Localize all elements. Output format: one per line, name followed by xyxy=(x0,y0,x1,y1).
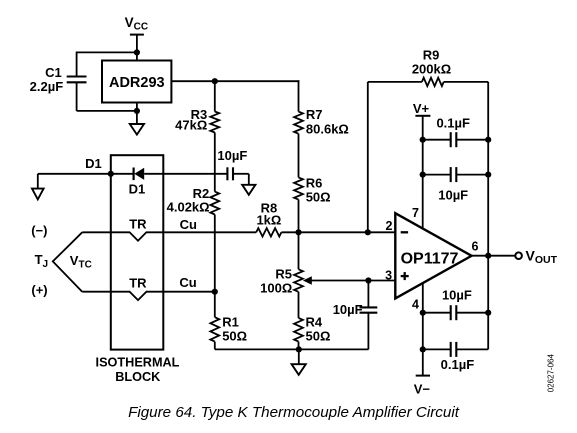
wire cap1 leads xyxy=(423,139,451,141)
resistor R3 xyxy=(210,112,219,133)
svg-text:Figure 64. Type K Thermocouple: Figure 64. Type K Thermocouple Amplifier… xyxy=(128,404,460,421)
svg-text:(+): (+) xyxy=(31,283,47,298)
svg-text:V−: V− xyxy=(414,382,431,397)
node pin4 cap right xyxy=(485,310,491,316)
power rail V- xyxy=(416,375,430,377)
node bottom cap left xyxy=(420,346,426,352)
svg-text:50Ω: 50Ω xyxy=(306,328,331,343)
svg-text:6: 6 xyxy=(472,239,479,253)
wire 10uF cap top lead xyxy=(367,281,369,308)
R5 wiper arrow xyxy=(303,276,312,285)
svg-text:TR: TR xyxy=(129,276,147,291)
wire C1 bottom to ADR ground node xyxy=(76,82,78,111)
node cap1 right xyxy=(485,137,491,143)
wire R9 row left xyxy=(368,81,422,83)
node cap2 right xyxy=(485,172,491,178)
wire ADR293 output row xyxy=(171,80,299,82)
power rail VCC symbol xyxy=(130,34,144,36)
svg-text:Cu: Cu xyxy=(179,275,196,290)
resistor R1 xyxy=(210,317,219,341)
wire 10uF cap bottom lead xyxy=(367,313,369,350)
potentiometer R5 xyxy=(294,269,303,292)
voltage reference ADR293 xyxy=(102,61,171,103)
svg-text:50Ω: 50Ω xyxy=(306,189,331,204)
wire bottom cap leads xyxy=(423,348,451,350)
svg-text:1kΩ: 1kΩ xyxy=(256,213,281,228)
svg-text:3: 3 xyxy=(385,269,392,283)
node TR-plus R1 tap xyxy=(212,289,218,295)
svg-text:200kΩ: 200kΩ xyxy=(412,62,451,77)
node pin4 cap left xyxy=(420,310,426,316)
wire cap to ground stub xyxy=(233,173,249,175)
node cap1 left xyxy=(420,137,426,143)
wire R2 bottom column xyxy=(214,215,216,292)
svg-text:4: 4 xyxy=(412,297,419,311)
wire cap2 leads xyxy=(423,174,451,176)
node D1 block edge xyxy=(108,171,114,177)
node 10uF tap pin3 xyxy=(365,277,371,283)
wire R7 to R6 xyxy=(298,134,300,178)
svg-text:80.6kΩ: 80.6kΩ xyxy=(306,121,349,136)
svg-text:10µF: 10µF xyxy=(333,302,363,317)
node ground rail xyxy=(296,346,302,352)
svg-text:100Ω: 100Ω xyxy=(260,280,292,295)
capacitor 0.1uF V+ xyxy=(450,132,452,147)
wire diode to junction xyxy=(144,173,228,175)
node R3 tap xyxy=(212,78,218,84)
svg-text:R9: R9 xyxy=(423,48,440,63)
resistor R4 xyxy=(294,318,303,342)
op-amp plus input mark xyxy=(401,275,409,277)
node VCC-C1 junction xyxy=(134,49,140,55)
svg-text:02627-064: 02627-064 xyxy=(546,353,555,392)
svg-text:OP1177: OP1177 xyxy=(401,251,459,268)
svg-text:2.2µF: 2.2µF xyxy=(30,79,64,94)
ground below ADR293 xyxy=(130,124,144,135)
svg-text:2: 2 xyxy=(385,219,392,233)
svg-text:R1: R1 xyxy=(222,314,239,329)
node ADR293 bottom xyxy=(134,108,140,114)
output terminal circle xyxy=(515,252,522,259)
wire wiper to opamp pin3 xyxy=(312,280,396,282)
svg-text:(−): (−) xyxy=(31,223,47,238)
svg-text:R4: R4 xyxy=(306,314,323,329)
wire pin2row to R5 xyxy=(298,232,300,269)
capacitor 10uF ref-filter xyxy=(226,167,228,180)
svg-text:47kΩ: 47kΩ xyxy=(175,118,207,133)
svg-text:ISOTHERMAL: ISOTHERMAL xyxy=(96,355,180,369)
svg-text:10µF: 10µF xyxy=(442,287,472,302)
wire R3 top lead xyxy=(214,81,216,111)
wire ref row corner down xyxy=(298,80,300,111)
svg-text:D1: D1 xyxy=(129,182,146,197)
wire bottom ground rail xyxy=(215,348,369,350)
wire R9 row right xyxy=(444,81,489,83)
svg-text:TR: TR xyxy=(129,217,147,232)
resistor R9 xyxy=(422,78,444,86)
wire node to R1 xyxy=(214,292,216,318)
op-amp OP1177 xyxy=(395,213,471,298)
op-amp minus input mark xyxy=(401,231,408,233)
wire node to C1 top xyxy=(77,51,137,53)
diode D1 xyxy=(133,168,135,181)
node R9-pin2 junction xyxy=(365,229,371,235)
svg-text:50Ω: 50Ω xyxy=(222,328,247,343)
resistor R7 xyxy=(294,112,303,134)
wire TR top row with junction xyxy=(82,232,256,240)
svg-text:10µF: 10µF xyxy=(438,188,468,203)
capacitor C1 xyxy=(67,75,87,77)
capacitor 10uF V+ xyxy=(450,167,452,182)
capacitor 10uF pin3 xyxy=(360,306,378,308)
svg-text:ADR293: ADR293 xyxy=(109,75,165,91)
wire output row xyxy=(472,255,516,257)
resistor R8 xyxy=(256,228,281,236)
svg-text:R5: R5 xyxy=(275,266,292,281)
wire R8 to opamp pin2 xyxy=(281,231,395,233)
wire R5 to R4 xyxy=(298,292,300,318)
capacitor 10uF V- xyxy=(450,305,452,320)
isothermal block outline xyxy=(111,155,164,349)
ground left of D1 xyxy=(37,174,39,189)
resistor R6 xyxy=(294,177,303,199)
wire R6 to pin2 row xyxy=(298,200,300,233)
ground bottom rail xyxy=(292,364,306,375)
wire output right column xyxy=(487,82,489,350)
wire TR bottom row with junction xyxy=(82,292,215,300)
svg-text:4.02kΩ: 4.02kΩ xyxy=(167,200,210,215)
svg-text:BLOCK: BLOCK xyxy=(115,370,161,384)
wire node to diode xyxy=(111,173,134,175)
wire left ground to block xyxy=(38,173,111,175)
svg-text:R7: R7 xyxy=(306,107,323,122)
wire ground stub xyxy=(298,349,300,364)
thermocouple junction TJ xyxy=(53,232,82,291)
wire pin4 cap leads xyxy=(423,312,451,314)
node R6-R8 junction xyxy=(295,229,301,235)
svg-text:7: 7 xyxy=(412,206,419,220)
wire ADR293 bottom stub xyxy=(136,103,138,125)
node cap2 left xyxy=(420,172,426,178)
svg-text:0.1µF: 0.1µF xyxy=(441,357,475,372)
wire pin4 column xyxy=(422,283,424,376)
svg-text:C1: C1 xyxy=(45,65,62,80)
wire R3 to R2 column xyxy=(214,133,216,192)
wire R4 bottom xyxy=(298,342,300,350)
resistor R2 xyxy=(210,192,219,215)
svg-text:D1: D1 xyxy=(85,156,102,171)
capacitor 0.1uF V- xyxy=(450,342,452,357)
svg-text:10µF: 10µF xyxy=(217,148,247,163)
wire R9 left column xyxy=(367,82,369,232)
ground 10uF ref-filter xyxy=(242,185,255,195)
svg-text:0.1µF: 0.1µF xyxy=(436,115,470,130)
svg-text:V+: V+ xyxy=(413,101,430,116)
node output xyxy=(485,253,491,259)
svg-text:Cu: Cu xyxy=(180,217,197,232)
wire R1 bottom xyxy=(214,342,216,350)
